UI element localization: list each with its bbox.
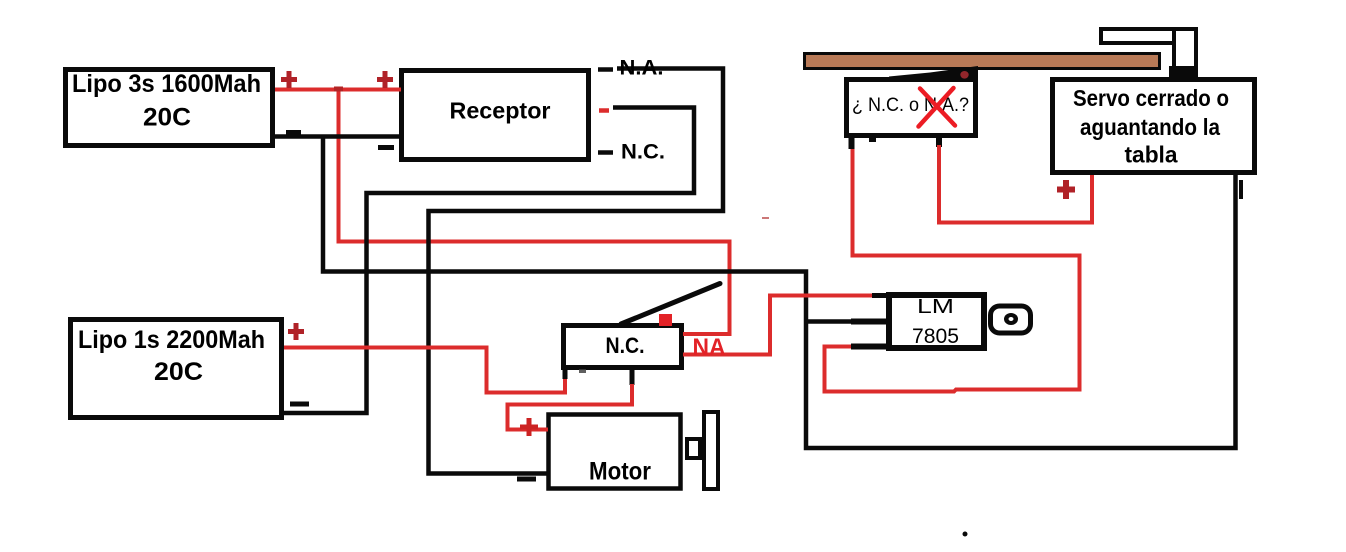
red dot on S2 lever	[960, 71, 968, 79]
lever S1	[621, 284, 720, 325]
pin stub receptor N.A.	[598, 67, 613, 72]
wire black Lipo3s- to Receptor	[275, 134, 401, 139]
wire red S2 right pin to servo+	[939, 145, 1092, 223]
pin nub S1 extra	[579, 370, 586, 374]
svg-text:N.C.: N.C.	[606, 333, 645, 358]
pin stub S2 middle nub	[869, 138, 876, 142]
regulator U2 mounting tab	[991, 306, 1031, 333]
minus dash Receptor input	[378, 145, 394, 150]
servo SV1 box	[1053, 80, 1255, 173]
pin stub LM7805 pin2	[851, 319, 889, 325]
pin stub LM7805 pin1	[872, 293, 889, 298]
svg-text:N.C.: N.C.	[621, 141, 665, 164]
receiver U1 Receptor	[402, 71, 589, 160]
artifact black dot	[963, 532, 968, 537]
motor flange	[704, 412, 718, 489]
switch S1 microswitch N.C.	[564, 326, 682, 368]
pin stub LM7805 pin3	[851, 344, 889, 350]
regulator U2 LM 7805	[889, 295, 984, 348]
minus dash motor	[517, 477, 536, 482]
plus sign motor	[520, 418, 538, 436]
svg-text:20C: 20C	[143, 104, 191, 132]
servo arm vertical	[1169, 29, 1198, 79]
plus sign Lipo1s	[288, 323, 304, 340]
wire black ground bus to LM7805 and servo loop	[323, 137, 1236, 449]
svg-text:LM: LM	[917, 296, 954, 318]
svg-text:NA: NA	[693, 334, 726, 361]
lever S2	[889, 66, 978, 81]
motor M1	[549, 415, 681, 489]
minus dash Lipo1s	[290, 402, 309, 407]
pin stub S2 right	[936, 138, 942, 147]
svg-text:Lipo 3s 1600Mah: Lipo 3s 1600Mah	[72, 70, 261, 98]
wire red S1 NA terminal to LM7805 in	[683, 296, 873, 355]
wire red Lipo3s+ to Receptor	[275, 88, 401, 92]
svg-text:aguantando la: aguantando la	[1080, 114, 1220, 140]
svg-text:20C: 20C	[154, 358, 203, 386]
pin stub S1 middle	[630, 368, 635, 385]
plus sign Receptor input	[377, 71, 393, 88]
button red square S1	[659, 314, 672, 326]
svg-text:7805: 7805	[912, 325, 959, 348]
wire red S1 to motor+	[508, 384, 633, 430]
svg-text:Motor: Motor	[589, 458, 651, 486]
minus dash Lipo3s	[286, 130, 301, 135]
pin stub receptor N.C.	[598, 150, 613, 155]
svg-text:Lipo 1s 2200Mah: Lipo 1s 2200Mah	[78, 326, 265, 354]
pin stub red receptor minus	[599, 108, 609, 113]
svg-text:Receptor: Receptor	[450, 98, 551, 124]
wire black N.A. to motor-	[429, 69, 724, 474]
wire black LM7805 pin2 branch	[806, 319, 860, 324]
pin stub S1 left	[563, 368, 568, 379]
plus sign servo	[1057, 180, 1075, 199]
svg-text:tabla: tabla	[1125, 142, 1178, 168]
svg-text:Servo cerrado o: Servo cerrado o	[1073, 85, 1229, 111]
pin stub servo minus	[1239, 180, 1243, 199]
wire red Lipo1s+ to switch S1	[284, 348, 565, 393]
red X over S2	[919, 88, 956, 127]
battery B2 Lipo 1s 2200Mah 20C	[71, 320, 282, 418]
junction tick red bus	[334, 87, 343, 92]
svg-text:N.A.: N.A.	[620, 57, 664, 80]
tabla wooden board	[805, 54, 1160, 69]
pin stub S2 left	[849, 138, 855, 149]
wire red junction down to main red bus	[339, 90, 730, 335]
switch S2 ¿ N.C. o N.A.?	[847, 80, 976, 136]
wire black receptor mid to Lipo1s-	[284, 108, 694, 414]
battery B1 Lipo 3s 1600Mah 20C	[66, 70, 273, 146]
wire red LM7805 out to switch S2 left pin	[825, 146, 1080, 392]
servo arm horizontal	[1101, 29, 1196, 43]
artifact red dash	[762, 217, 769, 219]
plus sign Lipo3s	[281, 71, 297, 88]
svg-text:¿ N.C. o N.A.?: ¿ N.C. o N.A.?	[852, 95, 969, 116]
motor shaft coupling	[687, 439, 700, 458]
